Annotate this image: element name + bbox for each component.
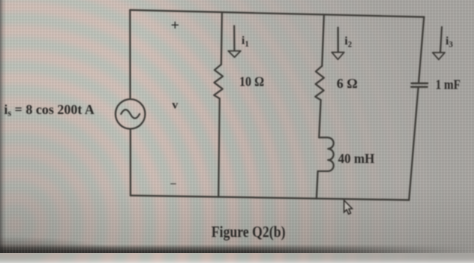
arrow i3	[440, 27, 442, 52]
svg-text:6 Ω: 6 Ω	[337, 77, 358, 92]
svg-text:i1: i1	[242, 33, 249, 49]
wire branch2 mid	[319, 100, 321, 138]
svg-text:Figure Q2(b): Figure Q2(b)	[211, 224, 285, 241]
svg-text:40 mH: 40 mH	[338, 152, 375, 167]
svg-text:1 mF: 1 mF	[436, 78, 461, 93]
wire bottom	[131, 196, 410, 201]
resistor R 6ohm	[315, 66, 324, 100]
wire right upper	[419, 17, 424, 83]
svg-text:is = 8 cos 200t A: is = 8 cos 200t A	[4, 102, 95, 118]
capacitor C 1mF plates	[411, 83, 427, 87]
svg-text:i3: i3	[446, 34, 453, 50]
wire branch1 upper	[220, 12, 223, 64]
inductor L 40mH	[318, 138, 334, 172]
wire branch2 upper	[322, 15, 324, 66]
wire left lower	[129, 129, 131, 196]
wire branch2 lower	[317, 171, 318, 198]
wire left upper	[129, 10, 131, 99]
mouse cursor	[344, 200, 352, 214]
svg-text:10 Ω: 10 Ω	[239, 75, 264, 90]
current source circle	[116, 99, 146, 129]
arrow i1	[233, 26, 235, 51]
wire top	[130, 10, 424, 17]
wire branch1 lower	[219, 99, 220, 197]
svg-text:i2: i2	[345, 34, 352, 50]
svg-text:v: v	[172, 98, 178, 112]
arrow i2	[337, 28, 339, 53]
wire right lower	[409, 87, 418, 200]
current source sine	[121, 110, 140, 119]
svg-text:–: –	[170, 178, 177, 190]
svg-text:+: +	[171, 18, 180, 34]
resistor R 10ohm	[214, 65, 223, 99]
